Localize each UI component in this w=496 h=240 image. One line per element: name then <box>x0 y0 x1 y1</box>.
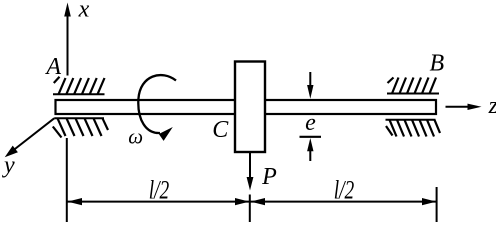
disk C <box>235 62 265 153</box>
support A bottom hatching <box>53 118 108 137</box>
svg-text:l/2: l/2 <box>149 176 170 205</box>
dimension arrowhead right <box>422 198 436 205</box>
svg-text:e: e <box>305 110 316 136</box>
svg-text:A: A <box>44 54 61 80</box>
svg-text:y: y <box>2 152 15 178</box>
rotation arrow omega arc <box>138 75 176 141</box>
eccentricity e upper arrow <box>307 72 313 99</box>
support A bottom hatch baseline <box>54 117 104 119</box>
support A top hatching <box>54 77 105 95</box>
shaft <box>56 100 437 114</box>
support B bottom hatching <box>386 120 440 137</box>
eccentricity e lower arrow <box>307 138 313 161</box>
load P arrow <box>247 153 254 191</box>
support A top hatch baseline <box>53 93 105 95</box>
svg-text:C: C <box>212 117 229 143</box>
svg-text:P: P <box>261 164 277 190</box>
dimension arrowhead middle-right <box>251 198 266 205</box>
svg-text:ω: ω <box>128 125 143 149</box>
support B bottom hatch baseline <box>386 119 436 121</box>
left extension line <box>66 138 68 222</box>
eccentricity e reference bar <box>300 136 322 138</box>
svg-text:z: z <box>488 93 496 119</box>
y axis arrow <box>5 118 55 157</box>
svg-text:x: x <box>78 0 90 23</box>
dimension arrowhead middle-left <box>235 198 249 205</box>
support B top hatching <box>388 78 437 94</box>
right extension line <box>436 187 438 222</box>
x axis arrow <box>64 3 71 76</box>
z axis arrow <box>446 104 482 110</box>
dimension arrowhead left <box>68 198 83 205</box>
middle extension line <box>249 195 251 223</box>
svg-text:l/2: l/2 <box>334 176 355 205</box>
svg-text:B: B <box>429 51 444 77</box>
support B top hatch baseline <box>387 93 439 95</box>
dimension line <box>67 201 437 203</box>
